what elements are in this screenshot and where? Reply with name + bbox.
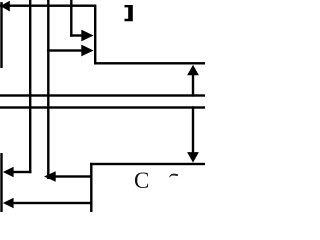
wire top horizontal feedback line — [0, 5, 95, 7]
wire vertical left lower segment — [0, 153, 2, 212]
svg-text:C: C — [134, 168, 149, 193]
wire horizontal at y=63 to right edge — [94, 62, 205, 64]
wire elbow from x=30 to left arrow at y=172 — [12, 171, 31, 173]
wire horizontal arrow at y=203 from box to left vertical — [13, 202, 93, 204]
arrowhead right at y=35 into x=95 vertical — [81, 30, 93, 42]
arrowhead left at top-left — [0, 1, 10, 12]
wire horizontal bus at y=107.5 full width — [0, 106, 205, 108]
wire horizontal arrow at y=176.5 from box to x=48 bus — [54, 175, 93, 177]
wire vertical x=193 lower segment from y=107.5 bus — [192, 106, 194, 153]
arrowhead down at x=193 into box top — [187, 152, 199, 163]
node box C5 left edge — [90, 163, 92, 212]
arrowhead left at y=176.5 at x=48 bus — [44, 171, 56, 182]
wire elbow horizontal at y=35 — [70, 34, 83, 36]
wire horizontal arrow at y=50 from x=48 bus — [47, 49, 83, 51]
arrowhead up at x=193 under y=63 line — [187, 65, 199, 76]
wire vertical bus at x=48 — [47, 0, 49, 179]
wire vertical bus at x=30 — [29, 0, 31, 173]
wire vertical x=193 upper segment down to y=95.5 bus — [192, 74, 194, 97]
arrowhead right at y=50 into x=95 vertical — [81, 45, 93, 57]
wire vertical at x=71 — [70, 0, 72, 37]
wire vertical at x=95 from top line down — [94, 5, 96, 65]
arrowhead left at y=203 into left vertical — [3, 198, 14, 209]
label bracket glyph top right — [125, 5, 133, 21]
wire horizontal bus at y=95.5 full width — [0, 94, 205, 96]
wire vertical left upper segment — [0, 2, 2, 68]
node box C5 top edge — [90, 163, 205, 165]
label stroke 5-top next to C — [169, 174, 178, 178]
arrowhead left into left vertical at y=172 — [3, 167, 14, 178]
